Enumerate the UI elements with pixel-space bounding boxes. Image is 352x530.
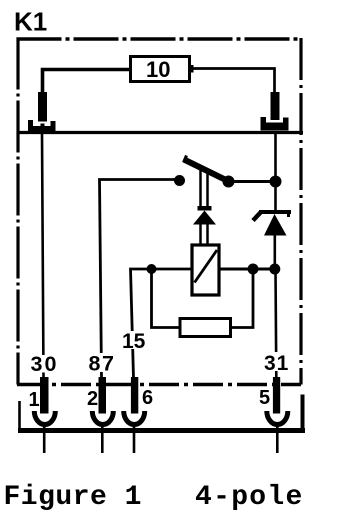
node on 15 wire xyxy=(147,264,157,274)
svg-text:30: 30 xyxy=(31,352,59,376)
diode D1 xyxy=(193,206,216,225)
harness wire below pin 2 xyxy=(101,424,104,453)
ink speck at resistor 10 right lead xyxy=(190,65,194,73)
wire terminal 30 to pin 1 xyxy=(42,134,44,378)
svg-text:87: 87 xyxy=(89,352,116,376)
pin 1 blade xyxy=(40,377,49,414)
terminal label 15 xyxy=(120,330,146,353)
top male pin of terminal 31 xyxy=(271,92,280,120)
top male pin of terminal 30 xyxy=(38,92,47,122)
svg-text:2: 2 xyxy=(87,388,98,410)
terminal label 31 xyxy=(262,352,289,375)
wire from junction to pin 5 (31) xyxy=(274,134,277,182)
terminal label 87 xyxy=(87,352,116,376)
wire coil left to pin 6 (15) xyxy=(131,269,193,378)
connector housing bottom rail xyxy=(18,428,305,433)
relay K1 boundary dash-dot box: left edge xyxy=(16,38,19,385)
socket cup pin 6 xyxy=(124,411,145,425)
resistor 10 xyxy=(131,57,190,83)
node 31 line xyxy=(269,264,280,275)
connector housing left wall xyxy=(18,401,21,429)
harness wire below pin 6 xyxy=(133,424,136,453)
svg-text:6: 6 xyxy=(142,387,153,409)
switch right contact node xyxy=(223,176,235,188)
solid socket rail line xyxy=(18,131,303,134)
wire node down to pin 5 (31) xyxy=(274,269,277,378)
socket cup pin 1 xyxy=(34,411,55,425)
wire from terminal 30 top pin to resistor 10 xyxy=(43,70,131,94)
svg-text:1: 1 xyxy=(29,389,40,411)
junction node at 31 line xyxy=(270,176,282,188)
wire from resistor 10 to terminal 31 top pin xyxy=(190,69,275,93)
terminal label 30 xyxy=(27,352,60,376)
wire switch contact to pin 2 (87) xyxy=(100,180,177,379)
pin 2 blade xyxy=(99,377,107,414)
actuator double link lower xyxy=(201,225,208,247)
pin 5 blade xyxy=(273,377,280,414)
svg-text:10: 10 xyxy=(146,57,170,82)
wire coil right to 31 line xyxy=(219,268,277,271)
harness wire below pin 1 xyxy=(43,424,46,453)
wire switch to junction node xyxy=(228,180,276,183)
socket cup pin 5 xyxy=(267,411,288,425)
svg-text:15: 15 xyxy=(122,330,146,353)
wire junction to zener xyxy=(274,182,277,211)
svg-text:31: 31 xyxy=(264,352,289,375)
zener diode D2 xyxy=(253,210,291,236)
resistor R2 parallel to coil xyxy=(180,319,231,337)
wire zener to node xyxy=(273,235,276,269)
relay K1 boundary dash-dot box: bottom edge xyxy=(17,383,301,387)
pin 6 blade xyxy=(131,377,138,414)
relay coil K1 xyxy=(192,245,219,295)
socket of terminal 30 xyxy=(28,120,56,133)
svg-text:K1: K1 xyxy=(14,7,47,37)
svg-text:4-pole: 4-pole xyxy=(195,482,304,513)
relay K1 boundary dash-dot box: top edge xyxy=(17,37,302,41)
socket of terminal 31 xyxy=(261,117,289,131)
actuator double link upper xyxy=(201,168,208,206)
connector housing right wall xyxy=(301,395,305,430)
wire node down to resistor R2 xyxy=(152,269,181,328)
wire resistor R2 up to node xyxy=(231,269,254,328)
svg-text:5: 5 xyxy=(259,387,270,409)
svg-text:Figure 1: Figure 1 xyxy=(4,482,142,513)
socket cup pin 2 xyxy=(92,411,113,425)
harness wire below pin 5 xyxy=(276,424,279,453)
node coil/resistor xyxy=(248,264,259,275)
switch arm xyxy=(184,156,230,182)
switch left contact node xyxy=(174,175,185,186)
relay K1 boundary dash-dot box: right edge xyxy=(299,38,302,385)
